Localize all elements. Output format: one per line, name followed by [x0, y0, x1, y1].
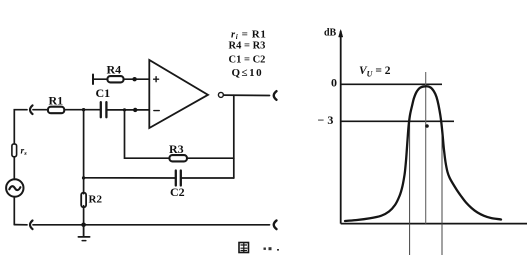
svg-text:0: 0 [331, 76, 337, 90]
wire output branch vertical [233, 95, 235, 178]
wire C2 line (node A branch to output branch) [84, 177, 234, 179]
marker dot on -3 line [425, 124, 429, 128]
input terminal top (plug arc) [30, 105, 33, 114]
-3 dB line [341, 120, 454, 122]
resistor R4 [107, 76, 123, 82]
node A junction dot [82, 108, 85, 111]
svg-text:C1 = C2: C1 = C2 [229, 55, 266, 66]
lower -3dB marker line [409, 121, 411, 255]
wire C1 to op-amp inverting input [106, 109, 149, 111]
svg-text:VU = 2: VU = 2 [359, 65, 391, 79]
svg-text:R2: R2 [89, 194, 103, 206]
AC source (circle with sine) [6, 179, 23, 196]
figure caption glyph (boxed character) [239, 243, 249, 253]
svg-text:− 3: − 3 [318, 113, 334, 127]
junction dot (feedback tap) [123, 108, 126, 111]
x-axis [341, 223, 527, 225]
svg-text:rs: rs [21, 147, 28, 158]
op-amp output node circle [218, 92, 223, 97]
capacitor C1 [101, 102, 107, 117]
resistor rs (source internal resistance, vertical box) [12, 144, 17, 157]
svg-text:R1: R1 [49, 94, 64, 108]
bottom left terminal (plug arc) [30, 221, 33, 230]
svg-text:R4: R4 [107, 63, 122, 77]
wire output to terminal [223, 94, 269, 96]
bottom rail junction dot [81, 223, 86, 228]
resistor R2 [81, 193, 86, 208]
caption dots [264, 247, 280, 250]
R4 ground stub bar [92, 75, 94, 85]
bottom rail wire [14, 224, 269, 226]
svg-text:R3: R3 [169, 142, 184, 156]
formula text block [229, 29, 267, 79]
svg-text:dB: dB [324, 28, 337, 39]
inverting input dot [133, 108, 137, 112]
0 dB line [341, 83, 442, 85]
op-amp U1 triangle [149, 60, 208, 128]
wire R3 to output branch [187, 157, 234, 159]
wire R1 to C1 (through node A) [65, 109, 101, 111]
non-inverting input dot [132, 77, 136, 81]
bottom right terminal (plug arc) [274, 221, 277, 230]
svg-text:R4 = R3: R4 = R3 [229, 41, 266, 52]
y-axis [339, 30, 343, 224]
svg-text:C1: C1 [96, 86, 111, 100]
wire feedback vertical (inverting node down to R3) [125, 110, 170, 158]
svg-text:Q≤10: Q≤10 [232, 67, 264, 79]
capacitor C2 [176, 171, 181, 186]
output terminal (plug arc) [274, 91, 277, 100]
wire R4 to op-amp non-inverting input [124, 78, 150, 80]
svg-text:ri = R1: ri = R1 [231, 29, 266, 42]
resistor R1 [48, 107, 64, 114]
junction dot C2 line / R2 branch [82, 176, 85, 179]
svg-text:C2: C2 [170, 185, 185, 199]
resistor R3 [169, 155, 187, 161]
wire left input column (top corner to rs, source, to bottom rail) [14, 110, 27, 225]
wire top terminal to R1 [33, 109, 48, 111]
wire R2 branch vertical (node A to bottom rail) [83, 110, 85, 225]
response curve (bell) [345, 86, 501, 221]
ground [78, 225, 89, 241]
upper -3dB marker line [441, 121, 443, 255]
center frequency marker line [425, 72, 427, 224]
wire stub to R4 [93, 78, 107, 80]
